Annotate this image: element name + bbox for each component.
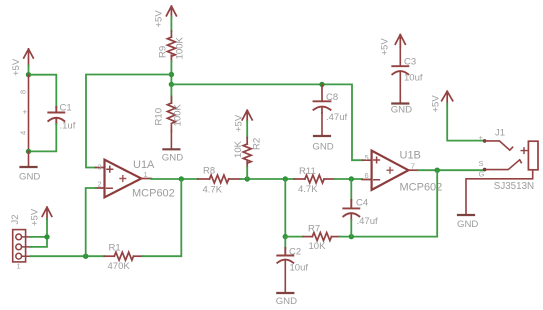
wire U1A output — [151, 178, 198, 180]
svg-text:+5V: +5V — [431, 95, 442, 113]
audio jack J1 SJ3513N — [479, 128, 539, 192]
op-amp U1B MCP602 — [362, 149, 442, 193]
svg-text:GND: GND — [391, 105, 412, 116]
wire feedback — [436, 170, 438, 236]
svg-text:100K: 100K — [173, 103, 184, 126]
ground — [312, 113, 333, 153]
node junction — [349, 234, 354, 239]
svg-text:R2: R2 — [252, 138, 263, 150]
supply +5V (op-amp power) — [11, 49, 33, 76]
svg-text:470K: 470K — [108, 261, 131, 272]
svg-text:4.7K: 4.7K — [203, 185, 223, 196]
capacitor C2 10uf — [277, 237, 308, 274]
svg-text:S: S — [479, 159, 484, 168]
ground — [19, 151, 40, 182]
node junction — [179, 176, 184, 181]
svg-text:C2: C2 — [289, 246, 301, 257]
node junction — [26, 72, 31, 77]
svg-text:MCP602: MCP602 — [132, 187, 175, 199]
resistor R2 10K — [233, 138, 263, 168]
wire bias to U1A non-inverting input — [86, 75, 171, 168]
svg-text:4.7K: 4.7K — [298, 184, 318, 195]
svg-text:1: 1 — [144, 170, 148, 179]
wire — [246, 121, 248, 138]
svg-text:+5V: +5V — [30, 208, 41, 226]
wire — [241, 178, 294, 180]
svg-text:4: 4 — [19, 131, 28, 135]
svg-text:+: + — [23, 108, 28, 117]
resistor R1 470K — [104, 243, 143, 272]
svg-text:10K: 10K — [309, 241, 327, 252]
wire — [29, 124, 57, 151]
capacitor C4 .47uf — [343, 179, 378, 227]
wire R1 to output node — [143, 179, 181, 256]
wire — [170, 61, 172, 84]
node junction — [245, 176, 250, 181]
op-amp U1 power pins 8/4 — [19, 75, 29, 152]
node junction — [169, 82, 174, 87]
ground — [391, 72, 412, 116]
svg-text:1: 1 — [17, 262, 21, 271]
svg-text:C1: C1 — [60, 103, 72, 114]
supply +5V (C3 top) — [380, 35, 406, 56]
resistor R8 4.7K — [198, 166, 241, 196]
svg-text:10uf: 10uf — [290, 263, 309, 274]
wire — [28, 66, 30, 75]
resistor R10 100K — [154, 84, 184, 131]
node junction — [44, 234, 49, 239]
svg-text:8: 8 — [19, 90, 28, 94]
svg-text:R1: R1 — [109, 243, 121, 254]
wire — [170, 17, 172, 32]
node junction — [169, 72, 174, 77]
svg-text:10K: 10K — [233, 140, 244, 158]
svg-text:+: + — [479, 133, 484, 142]
supply +5V (J2) — [30, 207, 52, 226]
svg-text:10uf: 10uf — [404, 73, 423, 84]
svg-text:5: 5 — [365, 153, 369, 162]
svg-text:J1: J1 — [495, 128, 505, 139]
svg-text:J2: J2 — [10, 214, 21, 224]
svg-text:3: 3 — [98, 163, 102, 172]
svg-text:R10: R10 — [154, 108, 165, 126]
wire — [31, 219, 48, 247]
resistor R11 4.7K — [294, 166, 334, 195]
wire +5V to J1 tip — [447, 104, 484, 141]
wire — [246, 167, 248, 179]
wire U1B output — [418, 169, 484, 171]
svg-text:R7: R7 — [308, 224, 320, 235]
svg-text:.1uf: .1uf — [60, 121, 76, 132]
capacitor C1 — [48, 103, 75, 132]
svg-text:+5V: +5V — [11, 58, 22, 76]
supply +5V (R9 top) — [154, 6, 177, 27]
svg-text:MCP602: MCP602 — [400, 181, 443, 193]
op-amp U1A MCP602 — [96, 159, 175, 199]
wire C2/R7 node drop — [284, 179, 286, 237]
svg-text:GND: GND — [162, 153, 183, 164]
node junction — [26, 149, 31, 154]
wire J2 pin3 to R1 — [31, 255, 105, 257]
svg-text:6: 6 — [365, 171, 369, 180]
svg-text:+5V: +5V — [380, 38, 391, 56]
connector J2 — [10, 214, 31, 270]
svg-text:R8: R8 — [203, 166, 215, 177]
ground — [162, 131, 183, 164]
svg-text:C4: C4 — [356, 198, 368, 209]
node junction — [435, 168, 440, 173]
wire — [350, 220, 352, 237]
svg-text:GND: GND — [19, 172, 40, 183]
svg-text:R9: R9 — [158, 46, 169, 58]
svg-text:+5V: +5V — [154, 10, 165, 28]
capacitor C3 10uf — [392, 45, 423, 84]
wire — [334, 178, 362, 180]
svg-text:C3: C3 — [404, 57, 416, 68]
svg-text:SJ3513N: SJ3513N — [494, 181, 534, 192]
capacitor C8 .47uf — [314, 82, 348, 123]
supply +5V (J1) — [431, 91, 453, 112]
svg-text:7: 7 — [411, 161, 415, 170]
resistor R9 100K — [158, 31, 186, 62]
svg-text:100K: 100K — [175, 36, 186, 59]
ground — [457, 215, 478, 230]
resistor R7 10K — [285, 224, 339, 252]
svg-text:+5V: +5V — [234, 114, 245, 132]
svg-text:R11: R11 — [299, 166, 316, 177]
svg-text:U1A: U1A — [133, 159, 155, 171]
node junction — [283, 176, 288, 181]
ground — [276, 261, 297, 307]
svg-text:.47uf: .47uf — [326, 112, 347, 123]
svg-text:GND: GND — [457, 219, 478, 230]
node junction — [283, 234, 288, 239]
node junction — [83, 254, 88, 259]
wire — [340, 236, 438, 238]
wire jack sleeve to ground — [466, 171, 533, 215]
node junction — [349, 176, 354, 181]
wire bias rail — [171, 84, 362, 160]
svg-text:U1B: U1B — [400, 149, 421, 161]
svg-text:.47uf: .47uf — [357, 216, 378, 227]
svg-text:GND: GND — [276, 296, 297, 307]
svg-text:G: G — [479, 170, 485, 179]
wire — [29, 75, 57, 107]
wire to U1A inverting input — [86, 188, 96, 256]
svg-text:GND: GND — [312, 142, 333, 153]
svg-text:C8: C8 — [326, 92, 338, 103]
svg-text:2: 2 — [98, 180, 102, 189]
supply +5V (R2 top) — [234, 110, 253, 132]
